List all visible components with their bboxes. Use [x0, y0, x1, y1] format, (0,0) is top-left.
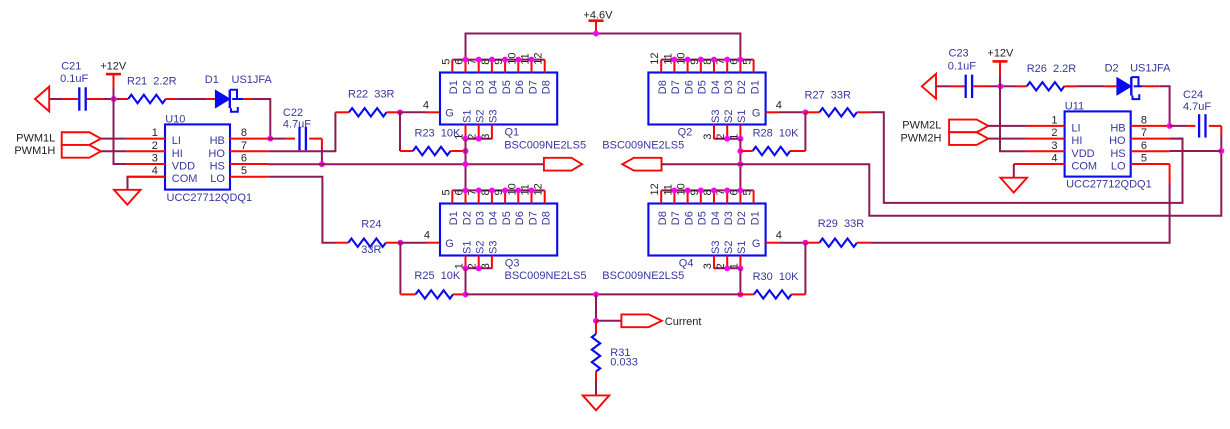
label C22 value	[283, 119, 311, 131]
svg-text:U10: U10	[165, 113, 185, 125]
svg-text:D8: D8	[657, 80, 669, 94]
Q4 drain pin 6 (D2)	[728, 189, 748, 225]
svg-text:S2: S2	[723, 110, 735, 123]
Q3 drain pin 11 (D7)	[520, 184, 540, 225]
label D2 value	[1130, 62, 1171, 74]
U11 pin 7 (HO)	[1109, 127, 1170, 147]
ground (U10 COM)	[114, 190, 141, 205]
svg-text:4.7uF: 4.7uF	[1183, 101, 1211, 113]
U11 pin 1 (LI)	[1026, 114, 1081, 134]
label R24 value	[361, 244, 381, 256]
svg-text:S1: S1	[736, 110, 748, 123]
Q1 drain pin 10 (D6)	[506, 52, 526, 94]
wire Q3 source to rail	[465, 268, 467, 294]
svg-text:3: 3	[702, 134, 714, 140]
junction Q4 S2 tie	[724, 265, 730, 271]
wire U11 COM to ground	[1014, 164, 1065, 178]
U10 pin 5 (LO)	[210, 165, 268, 185]
label D2	[1105, 62, 1119, 74]
svg-text:UCC27712QDQ1: UCC27712QDQ1	[167, 192, 253, 204]
port PWM1H	[62, 145, 101, 158]
svg-text:D3: D3	[723, 211, 735, 225]
wire Q2 drain bus	[661, 59, 753, 61]
svg-text:HB: HB	[210, 135, 225, 147]
Q3 drain pin 7 (D3)	[467, 189, 487, 225]
resistor R31	[592, 321, 600, 396]
label PWM2H	[900, 132, 941, 144]
svg-text:US1JFA: US1JFA	[1130, 62, 1171, 74]
label U10	[165, 113, 185, 125]
label R30 value	[753, 271, 800, 283]
Q4 drain pin 7 (D3)	[715, 189, 735, 225]
svg-text:HI: HI	[172, 148, 183, 160]
svg-text:4: 4	[776, 230, 782, 242]
svg-text:UCC27712QDQ1: UCC27712QDQ1	[1066, 179, 1152, 191]
junction +12V right	[998, 83, 1004, 89]
junction Q4 drain bus x687	[685, 187, 691, 193]
label U10 value	[167, 192, 253, 204]
port PWM1L	[62, 132, 101, 145]
label D1 value	[232, 74, 273, 86]
label Q2	[678, 127, 693, 139]
svg-text:S1: S1	[736, 241, 748, 254]
resistor R21	[119, 95, 176, 103]
transistor Q2 body	[648, 73, 765, 125]
svg-text:D3: D3	[475, 211, 487, 225]
port arrow switch node left	[544, 158, 582, 171]
label PWM2L	[902, 120, 941, 132]
capacitor C21	[63, 87, 104, 110]
svg-text:C22: C22	[283, 107, 303, 119]
wire Q1 source tie	[466, 138, 492, 140]
svg-text:5: 5	[440, 59, 452, 65]
wire to Q3 gate	[398, 242, 427, 244]
svg-text:5: 5	[742, 59, 754, 65]
junction current sense tap	[593, 318, 599, 324]
Q1 source pin 2 (S2)	[467, 110, 487, 140]
U11 pin 6 (HS)	[1110, 140, 1169, 160]
svg-text:D7: D7	[670, 80, 682, 94]
svg-text:S2: S2	[723, 241, 735, 254]
label R24	[361, 218, 381, 230]
wire Q1 source down to Q3 drain	[465, 139, 467, 191]
capacitor C23	[950, 75, 991, 98]
Q3 gate pin 4	[424, 230, 440, 243]
Q1 drain pin 11 (D7)	[520, 53, 540, 94]
wire Q2 source down to Q4 drain	[739, 139, 741, 191]
svg-text:4: 4	[776, 99, 782, 111]
svg-text:1: 1	[152, 127, 158, 139]
junction Q3 drain bus x491	[489, 187, 495, 193]
Q1 drain pin 12 (D8)	[533, 52, 553, 94]
svg-text:BSC009NE2LS5: BSC009NE2LS5	[504, 140, 586, 152]
svg-text:D1: D1	[205, 74, 219, 86]
label C21	[61, 60, 81, 72]
svg-text:D2: D2	[461, 211, 473, 225]
junction R23/S1 net	[463, 148, 469, 154]
wire +12V down to VDD	[114, 89, 127, 165]
junction Q4 drain bus x674	[671, 187, 677, 193]
svg-text:BSC009NE2LS5: BSC009NE2LS5	[602, 140, 684, 152]
junction rail / R31 tap	[593, 291, 599, 297]
label +4.6V	[583, 10, 613, 22]
U10 pin 8 (HB)	[210, 127, 269, 147]
svg-text:5: 5	[742, 189, 754, 195]
U11 pin 5 (LO)	[1111, 153, 1170, 173]
Q2 source pin 2 (S2)	[715, 110, 735, 140]
junction Q3 drain bus x518	[515, 187, 521, 193]
svg-text:S3: S3	[488, 110, 500, 123]
junction HB2/D2	[1167, 123, 1173, 129]
junction Q2 drain bus x740	[737, 57, 743, 63]
junction Q1 S2 tie	[476, 136, 482, 142]
Q3 drain pin 8 (D4)	[480, 189, 500, 225]
power +12V (right)	[993, 61, 1008, 75]
Q3 drain pin 10 (D6)	[506, 183, 526, 225]
svg-text:D3: D3	[475, 80, 487, 94]
junction HB/D1	[267, 136, 273, 142]
label R29 value	[818, 218, 865, 230]
label Q4	[679, 258, 694, 270]
svg-text:R26 2.2R: R26 2.2R	[1027, 63, 1077, 75]
diode D2	[1105, 77, 1160, 99]
wire R29 to U11 LO	[870, 183, 1169, 243]
wire HB2 to C24	[1170, 125, 1186, 127]
wire Q4 source tie	[714, 267, 740, 269]
junction C24/HS2	[1218, 148, 1224, 154]
label R23 value	[415, 127, 462, 139]
svg-text:7: 7	[1141, 127, 1147, 139]
label Q4 value	[602, 270, 684, 282]
label R22 value	[348, 88, 395, 100]
svg-text:D7: D7	[670, 211, 682, 225]
svg-text:4: 4	[1051, 153, 1057, 165]
Q3 drain pin 9 (D5)	[493, 189, 513, 225]
resistor R26	[1016, 82, 1078, 90]
svg-text:5: 5	[440, 189, 452, 195]
Q3 drain pin 12 (D8)	[533, 183, 553, 225]
Q4 source pin 1 (S1)	[728, 241, 748, 270]
wire Q2 source tie	[714, 138, 740, 140]
svg-text:8: 8	[241, 127, 247, 139]
svg-text:3: 3	[480, 134, 492, 140]
Q2 drain pin 5 (D1)	[742, 59, 762, 95]
svg-text:BSC009NE2LS5: BSC009NE2LS5	[505, 270, 587, 282]
junction Q2 drain bus x714	[711, 57, 717, 63]
svg-text:C23: C23	[949, 48, 969, 60]
Q4 drain pin 12 (D8)	[649, 183, 669, 225]
transistor Q3 body	[440, 204, 557, 256]
wire Q4 source to rail	[739, 268, 741, 294]
power +12V (left)	[106, 74, 121, 88]
wire Q3 source tie	[466, 267, 492, 269]
svg-text:+4.6V: +4.6V	[583, 10, 613, 22]
svg-text:D8: D8	[541, 211, 553, 225]
svg-text:4.7uF: 4.7uF	[283, 119, 311, 131]
Q4 source pin 2 (S2)	[715, 241, 735, 270]
svg-text:R29 33R: R29 33R	[818, 218, 865, 230]
svg-text:0.033: 0.033	[610, 356, 638, 368]
svg-text:R30 10K: R30 10K	[753, 271, 800, 283]
port arrow (right sheet entry)	[922, 74, 936, 99]
svg-text:R22 33R: R22 33R	[348, 88, 395, 100]
capacitor C22	[286, 127, 322, 150]
wire PWM2H to HI	[988, 138, 1026, 140]
label R26 value	[1027, 63, 1077, 75]
svg-text:D5: D5	[501, 80, 513, 94]
svg-text:G: G	[752, 107, 761, 119]
resistor R24	[335, 239, 398, 247]
junction Q4 drain bus x727	[724, 187, 730, 193]
junction R24/R25/gate Q3	[397, 240, 403, 246]
U11 pin 2 (HI)	[1026, 127, 1083, 147]
resistor R29	[805, 239, 870, 247]
label C24 value	[1183, 101, 1211, 113]
junction Q2 drain bus x727	[724, 57, 730, 63]
Q2 drain pin 11 (D7)	[662, 53, 682, 94]
junction Q2-S net / switch row	[737, 161, 743, 167]
junction Q2 S1 tie	[737, 136, 743, 142]
resistor R25	[400, 243, 465, 299]
label R27 value	[805, 89, 852, 101]
svg-text:8: 8	[1141, 114, 1147, 126]
wire PWM1L to LI	[101, 138, 127, 140]
svg-text:3: 3	[152, 153, 158, 165]
svg-text:2: 2	[152, 140, 158, 152]
port PWM2H	[949, 132, 988, 145]
U10 pin 1 (LI)	[126, 127, 181, 147]
wire HO up to R22	[268, 112, 335, 151]
svg-text:PWM2H: PWM2H	[900, 132, 941, 144]
port arrow (left sheet entry)	[35, 87, 49, 112]
junction Q3 drain bus x478	[476, 187, 482, 193]
junction Q1 drain bus x478	[476, 57, 482, 63]
Q1 drain pin 7 (D3)	[467, 59, 487, 95]
svg-text:33R: 33R	[361, 244, 381, 256]
svg-text:VDD: VDD	[172, 161, 195, 173]
wire HS2 row	[1170, 150, 1222, 152]
svg-text:Q3: Q3	[505, 258, 520, 270]
svg-text:LO: LO	[210, 173, 225, 185]
svg-text:D4: D4	[488, 211, 500, 225]
wire HO2 corner	[1170, 138, 1183, 140]
junction Q3 S2 tie	[476, 265, 482, 271]
svg-text:12: 12	[649, 183, 661, 195]
junction Q1 drain bus x505	[502, 57, 508, 63]
svg-text:D1: D1	[749, 211, 761, 225]
svg-text:D1: D1	[448, 80, 460, 94]
label C24	[1183, 89, 1203, 101]
svg-text:LO: LO	[1111, 161, 1126, 173]
resistor R27	[805, 108, 870, 116]
svg-text:D8: D8	[657, 211, 669, 225]
label Q3	[505, 258, 520, 270]
svg-text:R28 10K: R28 10K	[753, 128, 800, 140]
Q3 source pin 3 (S3)	[480, 241, 500, 270]
svg-text:PWM1L: PWM1L	[16, 132, 55, 144]
svg-text:0.1uF: 0.1uF	[948, 61, 976, 73]
wire D1 to HB node	[253, 99, 271, 139]
junction Q1 drain bus x465	[463, 57, 469, 63]
wire to Q1 gate	[398, 111, 427, 113]
svg-text:HS: HS	[210, 161, 225, 173]
Q2 source pin 3 (S3)	[702, 110, 722, 140]
svg-text:D2: D2	[736, 80, 748, 94]
svg-text:D1: D1	[448, 211, 460, 225]
junction C22/HS	[319, 161, 325, 167]
junction R29/R30/gate Q4	[802, 240, 808, 246]
wire tap to Current port	[596, 320, 621, 322]
label Q1 value	[504, 140, 586, 152]
Q4 drain pin 5 (D1)	[742, 189, 762, 225]
svg-text:S1: S1	[461, 241, 473, 254]
power +4.6V	[589, 21, 604, 34]
label +12V (left)	[100, 60, 127, 72]
Q2 drain pin 7 (D3)	[715, 59, 735, 95]
label Q1	[505, 127, 520, 139]
svg-text:R21 2.2R: R21 2.2R	[127, 76, 177, 88]
svg-text:12: 12	[649, 52, 661, 64]
wire C21 to +12V junction	[104, 98, 119, 100]
Q2 drain pin 8 (D4)	[702, 59, 722, 95]
Q1 drain pin 5 (D1)	[440, 59, 460, 95]
wire Q4 gate to R29	[779, 242, 806, 244]
svg-text:1: 1	[1051, 114, 1057, 126]
wire C23 to +12V junction	[990, 85, 1005, 87]
Q3 gate label	[445, 238, 454, 250]
svg-text:4: 4	[152, 165, 158, 177]
wire rail down to current tap	[595, 294, 597, 320]
wire +4.6V rail	[466, 34, 741, 60]
wire COM to ground	[128, 177, 166, 190]
label Current	[665, 316, 702, 328]
svg-text:S3: S3	[710, 241, 722, 254]
svg-text:D5: D5	[697, 80, 709, 94]
svg-text:3: 3	[480, 263, 492, 269]
svg-text:D4: D4	[710, 211, 722, 225]
transistor Q1 body	[440, 73, 557, 125]
junction Q1 drain bus x491	[489, 57, 495, 63]
svg-text:12: 12	[533, 52, 545, 64]
svg-text:6: 6	[1141, 140, 1147, 152]
wire source rail	[466, 293, 741, 295]
junction Q4 drain bus x714	[711, 187, 717, 193]
junction Q4 S1 tie	[737, 265, 743, 271]
U10 pin 4 (COM)	[126, 165, 197, 185]
U10 pin 7 (HO)	[208, 140, 268, 160]
svg-text:D3: D3	[723, 80, 735, 94]
svg-text:Q4: Q4	[679, 258, 694, 270]
svg-text:HO: HO	[1109, 135, 1126, 147]
wire Q4 drain bus	[661, 189, 753, 191]
gate driver U10 body	[165, 124, 230, 189]
svg-text:4: 4	[424, 230, 430, 242]
svg-text:D4: D4	[488, 80, 500, 94]
junction Q1 drain bus x531	[529, 57, 535, 63]
junction Q3 drain bus x465	[463, 187, 469, 193]
svg-text:Q2: Q2	[678, 127, 693, 139]
wire junction to R26	[1006, 85, 1017, 87]
svg-text:S1: S1	[461, 110, 473, 123]
label R25 value	[414, 270, 461, 282]
svg-text:6: 6	[241, 153, 247, 165]
svg-text:Q1: Q1	[505, 127, 520, 139]
Q2 drain pin 10 (D6)	[676, 52, 696, 94]
label PWM1L	[16, 132, 55, 144]
junction +12V left	[111, 96, 117, 102]
svg-text:G: G	[445, 238, 454, 250]
junction S1-net / HS row	[463, 161, 469, 167]
Q2 drain pin 9 (D5)	[689, 59, 709, 95]
label PWM1H	[14, 145, 55, 157]
wire D2 to HB node	[1159, 86, 1169, 126]
svg-text:C24: C24	[1183, 89, 1203, 101]
capacitor C24	[1186, 114, 1221, 137]
svg-text:G: G	[752, 238, 761, 250]
label R21 value	[127, 76, 177, 88]
Q1 source pin 3 (S3)	[480, 110, 500, 140]
svg-text:BSC009NE2LS5: BSC009NE2LS5	[602, 270, 684, 282]
label Q3 value	[505, 270, 587, 282]
label R28 value	[753, 128, 800, 140]
U11 pin 3 (VDD)	[1026, 140, 1095, 160]
svg-text:5: 5	[1141, 153, 1147, 165]
U11 pin 4 (COM)	[1026, 153, 1097, 173]
svg-text:R25 10K: R25 10K	[414, 270, 461, 282]
junction +4.6V tap	[593, 31, 599, 37]
svg-text:HO: HO	[208, 148, 225, 160]
wire HS switch node (left)	[268, 163, 544, 165]
junction Q3 S1 tie	[463, 265, 469, 271]
label C21 value	[60, 73, 88, 85]
Q3 drain pin 6 (D2)	[454, 189, 474, 225]
label C23	[949, 48, 969, 60]
Q1 gate pin 4	[423, 99, 440, 112]
ground (U11 COM)	[1000, 178, 1027, 193]
svg-text:HB: HB	[1110, 122, 1125, 134]
wire C24 to HS2 row	[1220, 134, 1222, 151]
svg-text:COM: COM	[1071, 161, 1097, 173]
svg-text:D6: D6	[683, 80, 695, 94]
Q1 gate label	[445, 107, 454, 119]
transistor Q4 body	[648, 204, 765, 256]
Q4 source pin 3 (S3)	[702, 241, 722, 270]
svg-text:D7: D7	[527, 211, 539, 225]
wire LO down to R24	[268, 177, 335, 243]
junction Q3 drain bus x505	[502, 187, 508, 193]
svg-text:HI: HI	[1071, 135, 1082, 147]
gate driver U11 body	[1065, 111, 1131, 176]
wire +12V down to U11 VDD	[1000, 76, 1026, 152]
junction Q4 drain bus x740	[737, 187, 743, 193]
svg-text:D5: D5	[697, 211, 709, 225]
wire port to C21	[49, 98, 63, 100]
svg-text:S2: S2	[475, 241, 487, 254]
svg-text:LI: LI	[1071, 122, 1080, 134]
svg-text:+12V: +12V	[100, 60, 127, 72]
svg-text:S3: S3	[710, 110, 722, 123]
U11 LO drop red part	[1169, 164, 1171, 183]
junction Q2 drain bus x700	[698, 57, 704, 63]
svg-text:3: 3	[1051, 140, 1057, 152]
svg-text:G: G	[445, 107, 454, 119]
Q4 gate label	[752, 238, 761, 250]
svg-text:R27 33R: R27 33R	[805, 89, 852, 101]
ground (R31)	[583, 395, 610, 410]
junction Q4 drain bus x700	[698, 187, 704, 193]
U10 pin 6 (HS)	[210, 153, 269, 173]
label D1	[205, 74, 219, 86]
